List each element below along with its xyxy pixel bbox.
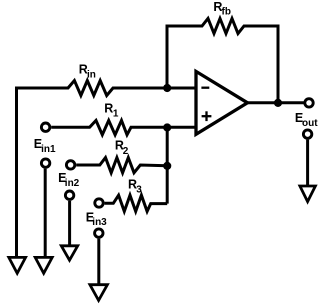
svg-text:fb: fb: [222, 7, 231, 18]
svg-text:out: out: [302, 118, 318, 129]
svg-text:in2: in2: [65, 178, 80, 189]
svg-text:in1: in1: [41, 144, 56, 155]
svg-text:3: 3: [136, 185, 142, 196]
svg-text:in3: in3: [92, 217, 107, 228]
svg-text:1: 1: [113, 108, 119, 119]
svg-text:2: 2: [123, 146, 129, 157]
svg-text:in: in: [87, 69, 96, 80]
